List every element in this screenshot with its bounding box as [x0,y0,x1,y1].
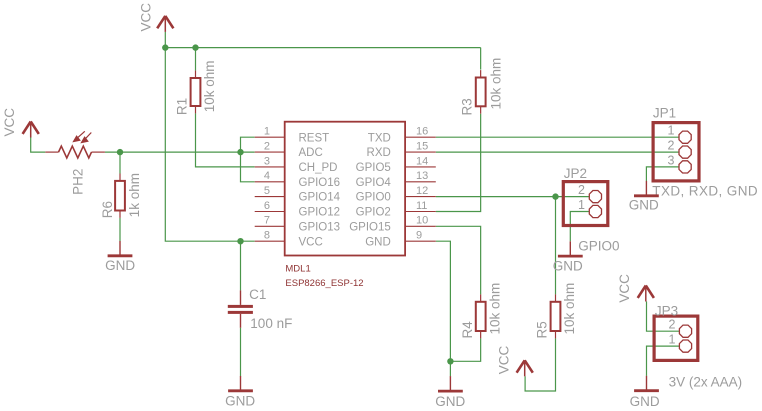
junction VCC rail / R1 [192,44,198,50]
wire pin 9 GND right and down to junction [436,241,451,376]
JP2 pad 1 [589,205,601,217]
wire GPIO15 pin 10 to R4 [436,226,481,294]
wire JP1 pin 3 to GND [646,167,679,181]
svg-text:ESP8266_ESP-12: ESP8266_ESP-12 [285,278,363,289]
svg-text:GND: GND [225,394,255,409]
svg-text:GND: GND [553,259,583,274]
svg-text:C1: C1 [249,287,266,302]
svg-text:2: 2 [669,318,676,332]
svg-text:R6: R6 [100,201,115,218]
svg-text:REST: REST [299,132,330,144]
svg-text:PH2: PH2 [70,169,85,195]
junction VCC rail / VCC column [162,44,168,50]
supply VCC far left [2,108,39,138]
resistor R3 10k ohm [460,58,504,116]
svg-text:11: 11 [416,200,427,212]
svg-text:VCC: VCC [617,274,632,303]
pin 2 ADC stub [255,151,285,153]
wire VCC left column down to pin 8 [165,48,254,242]
junction PH2 / R6 / ADC [117,149,123,155]
ground under R6 [105,241,135,273]
svg-text:GND: GND [630,394,660,409]
svg-text:1: 1 [669,333,676,347]
svg-text:GPIO2: GPIO2 [356,207,391,219]
svg-text:ADC: ADC [299,147,323,159]
resistor R4 10k ohm [460,283,503,339]
wire JP3 VCC arrow to pin 2 [647,302,680,332]
svg-text:6: 6 [264,200,270,212]
JP1 pad 3 [679,161,691,173]
svg-text:VCC: VCC [138,3,153,32]
svg-text:7: 7 [264,215,270,227]
wire ADC net PH2 to pin 2 [105,151,255,153]
svg-text:R1: R1 [174,98,189,115]
pin 1 REST stub [255,136,285,138]
svg-text:TXD: TXD [368,132,391,144]
wire VCC branch down to C1 [240,241,242,290]
svg-text:3: 3 [667,153,674,167]
ground under C1 [225,376,255,409]
svg-text:GPIO14: GPIO14 [299,192,341,204]
svg-text:GND: GND [365,236,391,248]
wire RXD pin 15 to JP1 pin 2 [436,151,679,153]
pin 13 GPIO4 stub [405,181,436,183]
svg-text:GPIO0: GPIO0 [356,192,391,204]
wire R6 bottom to GND [119,218,121,241]
svg-text:MDL1: MDL1 [285,263,310,274]
svg-text:3: 3 [264,155,270,167]
supply VCC top left [138,3,173,32]
svg-text:2: 2 [264,141,270,153]
svg-text:10: 10 [416,215,428,227]
pin 4 GPIO16 stub [255,181,285,183]
svg-text:R3: R3 [460,98,475,115]
connector JP3 [654,304,742,390]
pin 15 RXD stub [405,151,436,153]
svg-text:14: 14 [416,155,428,167]
capacitor C1 100 nF [228,287,293,331]
wire R3 bottom to pin 11 GPIO2 [436,114,481,212]
svg-text:2: 2 [578,183,585,197]
svg-text:VCC: VCC [2,108,17,137]
pin 7 GPIO13 stub [255,225,285,227]
pin 10 GPIO15 stub [405,225,436,227]
svg-text:15: 15 [416,141,428,153]
supply VCC at R5 [497,345,533,376]
JP3 pad 2 [679,325,691,337]
svg-text:10k ohm: 10k ohm [562,283,577,335]
photoresistor PH2 [45,131,105,195]
pin 3 CH_PD stub [255,166,285,168]
connector JP2 [563,166,619,254]
pin 5 GPIO14 stub [255,196,285,198]
svg-text:5: 5 [264,185,270,197]
svg-text:16: 16 [416,126,428,138]
supply VCC at JP3 [617,274,654,303]
wire TXD pin 16 to JP1 pin 1 [436,136,679,138]
svg-text:RXD: RXD [367,147,391,159]
svg-text:CH_PD: CH_PD [299,162,338,174]
ground under R4 junction [435,376,465,409]
svg-text:GND: GND [105,258,135,273]
svg-text:GPIO13: GPIO13 [299,221,341,233]
wire JP3 pin 1 to GND [647,346,680,376]
svg-text:10k ohm: 10k ohm [487,283,502,335]
svg-text:GND: GND [629,198,659,213]
junction R4 / pin 9 GND [447,358,453,364]
pin 12 GPIO0 stub [405,196,436,198]
wire VCC top rail [165,32,480,48]
svg-text:GPIO12: GPIO12 [299,207,341,219]
svg-text:JP1: JP1 [653,105,676,120]
ground under JP3 [630,376,660,409]
wire R1 bottom to pin 3 CH_PD [196,113,255,166]
connector JP1 [652,105,758,198]
pin 16 TXD stub [405,136,436,138]
pin 8 VCC stub [255,240,285,242]
svg-text:VCC: VCC [497,345,512,374]
wire ADC branch down to pin 4 GPIO16 [241,152,255,182]
svg-text:2: 2 [667,139,674,153]
JP1 pad 1 [679,131,691,143]
wire C1 bottom to GND [240,328,242,376]
svg-text:100 nF: 100 nF [250,316,292,331]
wire R3 top [480,48,482,70]
PH2 light arrows [74,131,92,142]
svg-text:VCC: VCC [299,236,323,248]
wire VCC left arrow to PH2 [31,137,46,152]
svg-text:R5: R5 [535,321,550,338]
ground under JP2 [553,241,583,273]
wire ADC branch up to pin 1 REST [241,137,255,152]
svg-text:GPIO4: GPIO4 [356,177,392,189]
junction GPIO0 at JP2 / R5 [552,193,558,199]
resistor R6 1k ohm [100,173,142,218]
svg-text:TXD, RXD, GND: TXD, RXD, GND [652,184,758,199]
svg-text:R4: R4 [460,321,475,339]
JP1 pad 2 [679,146,691,158]
svg-text:10k ohm: 10k ohm [489,58,504,110]
pin 11 GPIO2 stub [405,211,436,213]
ground at JP1 pin 3 [629,181,659,213]
JP2 pad 2 [589,191,601,203]
svg-text:4: 4 [264,170,270,182]
svg-text:1: 1 [264,126,270,138]
svg-text:GPIO0: GPIO0 [578,239,619,254]
svg-text:JP2: JP2 [564,166,587,181]
svg-text:9: 9 [416,230,422,242]
svg-text:12: 12 [416,185,428,197]
wire JP2 pin 1 to GND [570,212,589,242]
pin 9 GND stub [405,240,436,242]
pin 14 GPIO5 stub [405,166,436,168]
svg-text:GPIO15: GPIO15 [349,221,391,233]
resistor R1 10k ohm [174,61,216,116]
wire GPIO0 pin 12 to JP2 pin 2 [436,196,589,198]
svg-text:13: 13 [416,170,428,182]
svg-text:GPIO16: GPIO16 [299,177,341,189]
svg-text:1k ohm: 1k ohm [127,173,142,217]
wire R1 top [195,48,197,71]
svg-text:GND: GND [435,394,465,409]
wire R5 bottom to VCC arrow [525,338,555,391]
wire R4 bottom to GND junction [450,338,480,361]
svg-text:1: 1 [578,198,585,212]
wire R6 top [119,152,121,173]
svg-text:3V (2x AAA): 3V (2x AAA) [669,374,743,389]
JP3 pad 1 [679,340,691,352]
svg-text:10k ohm: 10k ohm [202,61,217,113]
pin 6 GPIO12 stub [255,211,285,213]
svg-text:JP3: JP3 [655,304,678,319]
svg-text:GPIO5: GPIO5 [356,162,391,174]
module MDL1 ESP8266_ESP-12 [255,122,436,290]
svg-text:1: 1 [667,124,674,138]
resistor R5 10k ohm [535,283,578,339]
wire GPIO0 junction down to R5 [555,197,557,295]
junction VCC at pin 8 / C1 [237,238,243,244]
junction ADC column [237,149,243,155]
svg-text:8: 8 [264,230,270,242]
